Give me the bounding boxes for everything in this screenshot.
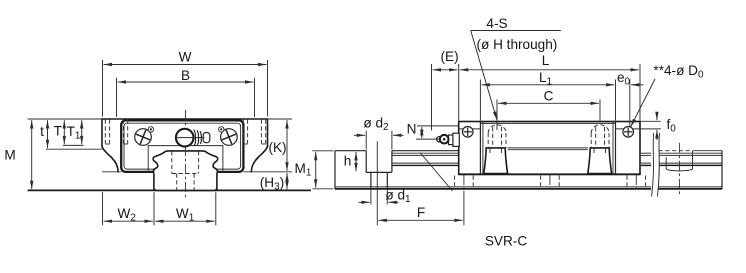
pin hole left (148, 127, 153, 132)
svg-text:f0: f0 (667, 117, 677, 135)
svg-text:t: t (40, 124, 44, 139)
block right wing S-curve (251, 147, 267, 172)
hidden tapped hole right, center x=254.5 (242, 120, 244, 144)
dim T1 (81, 120, 83, 144)
leg trapezoid right (588, 148, 612, 174)
svg-text:**4-ø D0: **4-ø D0 (653, 63, 704, 81)
cap seal lines (459, 128, 481, 130)
rail hidden through hole (dashed) (176, 174, 178, 191)
dim phi d2 (365, 131, 367, 150)
svg-text:M1: M1 (295, 161, 312, 179)
svg-text:ø d2: ø d2 (363, 115, 389, 133)
counterbore in section (365, 151, 367, 173)
block bottom edge (102, 171, 121, 173)
left view centerline (184, 110, 186, 198)
dim f0 (640, 120, 661, 122)
dim B (116, 78, 118, 117)
dim N (417, 125, 459, 127)
end cap joints (479, 122, 481, 175)
svg-text:W: W (179, 49, 192, 64)
svg-text:M: M (4, 148, 15, 163)
end plate outer (121, 120, 243, 171)
svg-text:ø d1: ø d1 (385, 188, 411, 206)
phillips screw right (219, 127, 239, 147)
mounting surface line (28, 189, 312, 191)
svg-text:(ø H through): (ø H through) (476, 37, 557, 52)
leg trapezoid left (484, 148, 508, 174)
lines between legs (508, 147, 588, 149)
svg-text:L1: L1 (539, 70, 553, 88)
D0 bolt left (462, 127, 473, 138)
dim M (28, 118, 103, 120)
dim phi d1 (370, 190, 372, 205)
end plate inner line (124, 123, 241, 169)
svg-text:(E): (E) (441, 49, 459, 64)
dim (E) and L (431, 64, 433, 131)
block left face (101, 119, 103, 147)
dim M1 (312, 150, 333, 152)
svg-text:B: B (181, 68, 190, 83)
dim h (355, 152, 357, 171)
rail cross-section profile (153, 151, 218, 191)
rail bottom double line (335, 186, 651, 188)
block left wing S-curve (102, 147, 118, 172)
hole centerline right (678, 143, 680, 197)
hidden rail holes under block (455, 176, 646, 187)
rail right of block: break symbol (652, 133, 654, 197)
svg-text:(K): (K) (268, 140, 286, 155)
body top chamfer line (480, 122, 615, 124)
rail hidden counterbore (dashed) (171, 151, 173, 173)
hidden tapped hole left (4-S), center x=116.5 (104, 120, 106, 144)
broken-out section boundary diagonal (420, 153, 453, 192)
svg-text:L: L (542, 53, 550, 68)
hidden bolt slot left (4-S hole) (487, 133, 489, 148)
svg-text:N: N (407, 122, 417, 137)
svg-text:SVR-C: SVR-C (485, 234, 527, 249)
dim W (102, 60, 104, 117)
dim (H3) (286, 173, 288, 189)
svg-text:h: h (344, 154, 352, 169)
pin hole right (219, 127, 224, 132)
section hole centerline (376, 142, 378, 226)
svg-text:W1: W1 (176, 206, 195, 224)
rail end face (721, 151, 723, 189)
dim F (378, 219, 462, 221)
grease nipple side view (416, 133, 459, 146)
svg-text:(H3): (H3) (260, 175, 284, 193)
dim C (496, 100, 498, 131)
svg-text:W2: W2 (117, 206, 136, 224)
counterbore seen on right portion (665, 157, 667, 170)
grease nipple front view (176, 129, 210, 147)
cavity around rail (148, 146, 223, 173)
rail groove lines left of block (392, 152, 459, 154)
rail section left part (334, 151, 336, 189)
dim T (63, 144, 84, 146)
block bottom edge (459, 173, 640, 175)
block top edge (102, 118, 268, 120)
D0 bolt right (623, 127, 634, 138)
rail stubs between block and break (641, 152, 651, 154)
phillips screw left (133, 127, 153, 147)
svg-text:e0: e0 (617, 70, 631, 88)
hidden bolt slot right (590, 133, 592, 148)
svg-text:C: C (544, 88, 554, 103)
block side view outline (459, 122, 640, 175)
svg-text:F: F (417, 205, 425, 220)
svg-text:T: T (54, 124, 62, 139)
rail right portion (659, 150, 693, 152)
F extension from hole center (463, 191, 465, 226)
dim W2 / W1 (102, 192, 104, 225)
dim L1 / e0 (479, 80, 481, 121)
svg-text:4-S: 4-S (486, 16, 507, 31)
block right face (267, 119, 269, 147)
svg-text:T1: T1 (67, 124, 81, 142)
dim (K) (268, 118, 293, 120)
dim t (46, 148, 102, 150)
